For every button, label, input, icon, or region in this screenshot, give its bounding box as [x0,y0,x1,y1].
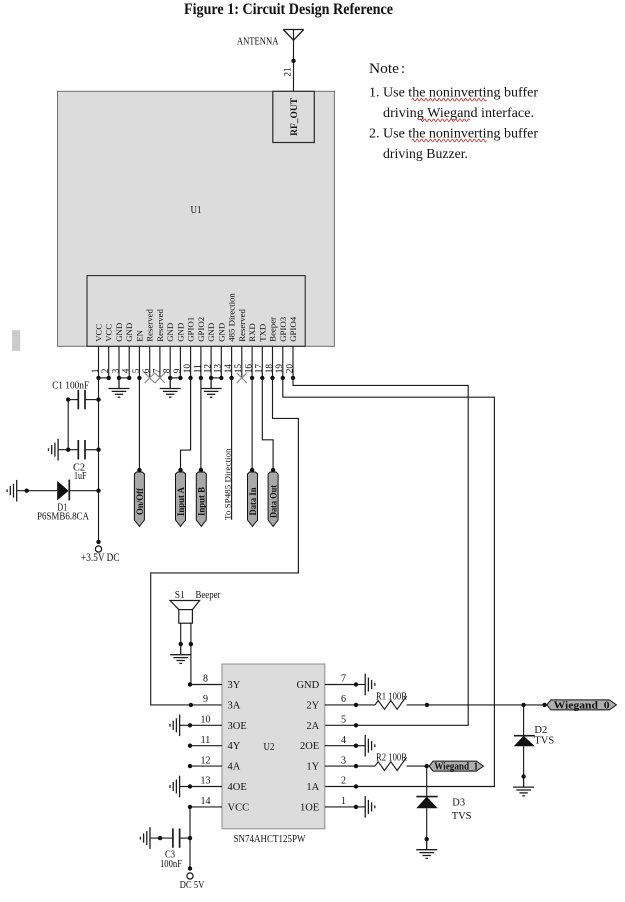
ground at U2 pin 4 (2OE) [356,745,365,747]
junction D2 ground [521,774,525,778]
svg-text:21: 21 [282,68,292,77]
wire C2 right lead [85,449,99,451]
svg-text:12: 12 [204,364,214,374]
U1 pin 20 stub wire [292,346,294,378]
no-connect X on U1 pin 7 [155,373,165,383]
svg-text:Note: Note [369,61,399,77]
svg-text:On/Off: On/Off [136,487,146,515]
U1 pin 18 stub wire [272,346,274,378]
wire pin20 to 2A [293,378,468,725]
U1 pin 13 stub wire [220,346,222,378]
U2 pin 4 wire [325,745,356,747]
junction U1 pin 13 [219,376,223,380]
power terminal +3.5V DC [95,546,101,552]
junction U2 pin 9 [189,703,193,707]
svg-text:2. Use the noninverting buffer: 2. Use the noninverting buffer [369,127,538,142]
svg-text:GND: GND [124,323,134,342]
junction U1 pin 14 [229,376,233,380]
wire antenna to RF_OUT [293,30,295,92]
junction U1 pin 17 [260,376,264,380]
no-connect X on U1 pin 6 [145,373,155,383]
svg-text:S1: S1 [175,589,185,601]
svg-text:GPIO3: GPIO3 [278,316,288,342]
flag On/Off [134,472,144,526]
svg-text:Beeper: Beeper [268,317,278,342]
svg-text:RF_OUT: RF_OUT [290,97,300,136]
svg-text:GND: GND [114,323,124,342]
flag Data In [248,472,258,526]
junction U2 pin 13 [188,784,192,788]
wire pin19 to 1A [283,378,495,787]
ground pins 3-4 [109,378,130,397]
svg-text:To SP485 Direction: To SP485 Direction [223,448,233,520]
svg-text:9: 9 [203,694,208,705]
wire pin14 SP485 stub [231,378,233,520]
svg-text:4OE: 4OE [228,782,247,793]
capacitor C2 [78,440,85,459]
U1 pin 11 stub wire [200,346,202,378]
wire speaker right lead to 3Y [190,623,192,684]
U2 pin 7 wire [325,684,356,686]
junction U2 pin 5 [354,723,358,727]
capacitor C3 [173,828,180,847]
svg-text:13: 13 [214,364,224,374]
junction U1 pin 4 [127,376,131,380]
svg-text:RXD: RXD [247,323,257,342]
svg-text:1Y: 1Y [306,762,319,773]
svg-text:D3: D3 [452,797,465,808]
svg-text:2: 2 [101,368,111,373]
junction D1 anode [25,489,29,493]
svg-text:TVS: TVS [452,811,472,822]
svg-text:Reserved: Reserved [155,308,165,341]
U2 pin 11 wire [190,745,222,747]
diode D3 TVS [426,766,428,797]
svg-text:+3.5V DC: +3.5V DC [81,552,120,564]
flag Input B [196,472,206,526]
ground at U2 pin 1 (1OE) [356,806,365,808]
junction C1 left [66,397,70,401]
IC U1 body [58,91,335,346]
svg-text:20: 20 [285,364,295,374]
U1 pin 8 stub wire [169,346,171,378]
junction rail end [96,540,100,544]
wire R2 to Wiegand_1 [407,765,430,767]
svg-text:4Y: 4Y [228,741,241,752]
svg-text:1: 1 [91,368,101,373]
svg-text:4A: 4A [228,762,241,773]
svg-text:P6SMB6.8CA: P6SMB6.8CA [37,511,89,523]
svg-text:14: 14 [224,364,234,374]
svg-text:2Y: 2Y [306,700,319,711]
svg-text:5: 5 [341,715,346,726]
ground at D1 [7,480,17,502]
svg-text:driving Wiegand interface.: driving Wiegand interface. [383,106,534,121]
U2 pin 12 wire [190,765,222,767]
wire pin16 to Data In flag [251,378,253,470]
svg-text:3OE: 3OE [228,721,247,732]
diode D1 [57,481,68,501]
ground pins 8-9 [160,378,181,397]
U1 pin 9 stub wire [179,346,181,378]
junction U1 pin 3 [117,376,121,380]
ground below D3 [416,839,437,858]
svg-text:C1 100nF: C1 100nF [52,380,89,392]
U1 pin 5 stub wire [138,346,140,378]
ground pins 12-13 [201,378,222,397]
svg-text:TVS: TVS [534,736,554,747]
junction rail C2 [96,448,100,452]
wire D1 cathode lead [69,490,98,492]
svg-text:Figure 1: Circuit Design Refer: Figure 1: Circuit Design Reference [184,1,393,18]
svg-text:1. Use the noninverting buffer: 1. Use the noninverting buffer [369,86,538,101]
svg-text:U1: U1 [191,204,202,216]
antenna [283,30,303,41]
U2 pin 6 wire to R1 [325,704,375,706]
junction antenna node [291,59,295,63]
wire C2 left lead [58,449,78,451]
junction U2 pin 12 [188,764,192,768]
svg-text:R1 100R: R1 100R [376,691,407,702]
junction U1 pin 12 [209,376,213,380]
wire D1 anode lead [17,490,58,492]
svg-text:VCC: VCC [104,324,114,342]
svg-text:Input B: Input B [198,486,208,516]
junction Input A flag [178,468,182,472]
junction U1 pin 18 [270,376,274,380]
svg-text:1uF: 1uF [74,470,87,482]
capacitor C1 [78,390,85,409]
svg-text:12: 12 [201,755,211,766]
U2 pin 1 wire [325,806,356,808]
U1 pin 10 stub wire [190,346,192,378]
wire +3.5V rail [98,378,100,542]
junction U1 pin 2 [107,376,111,380]
ground at U2 pin 10 (3OE) [180,724,190,726]
U1 pin 19 stub wire [282,346,284,378]
svg-text:GND: GND [175,323,185,342]
svg-text:8: 8 [163,368,173,373]
svg-text:GPIO2: GPIO2 [196,317,206,342]
svg-text:VCC: VCC [228,802,250,813]
junction C2 left [66,448,70,452]
svg-text:16: 16 [245,364,255,374]
svg-text::: : [401,61,405,77]
resistor R2 [375,757,407,770]
junction U2 pin 6 [354,703,358,707]
wire C3 right lead [180,837,190,839]
ground at C2 [49,439,59,461]
svg-text:10: 10 [183,364,193,374]
resistor R1 [375,696,407,709]
svg-text:7: 7 [152,368,162,373]
junction D2 tap [521,703,525,707]
svg-text:TXD: TXD [257,324,267,342]
junction Wiegand_0 entry [542,703,546,707]
wire C1 right lead [85,399,99,401]
wire U2 VCC rail [189,807,191,869]
wire pins 1-2 link [99,377,109,379]
junction U1 pin 16 [250,376,254,380]
ground at U2 pin 13 (4OE) [180,786,190,788]
RF_OUT pin box [273,91,315,142]
U2 pin 13 wire [190,786,222,788]
junction U1 pin 8 [168,376,172,380]
no-connect X on U1 pin 15 [237,373,247,383]
svg-text:U2: U2 [264,741,275,753]
svg-text:ANTENNA: ANTENNA [237,36,279,47]
svg-text:Data In: Data In [249,487,259,516]
wire D3 to ground [426,808,428,839]
svg-text:EN: EN [134,329,144,341]
svg-text:Wiegand_0: Wiegand_0 [554,700,610,711]
svg-text:11: 11 [201,735,211,746]
wire R1 to Wiegand_0 [407,704,547,706]
svg-text:SN74AHCT125PW: SN74AHCT125PW [234,833,306,845]
svg-text:19: 19 [275,364,285,374]
svg-text:DC 5V: DC 5V [180,879,205,891]
svg-text:13: 13 [201,776,211,787]
wire D2 to ground [523,746,525,776]
wire C1 to C2 [67,400,69,450]
wire speaker left lead [180,623,182,644]
flag Data Out [268,472,278,526]
U1 pin 15 stub wire [241,346,243,378]
U1 pin 12 stub wire [210,346,212,378]
junction Input B flag [199,468,203,472]
junction rail end DC5V [188,866,192,870]
U1 pin header box [87,276,305,347]
svg-text:1OE: 1OE [300,802,319,813]
junction U2 pin 3 [354,764,358,768]
svg-text:Data Out: Data Out [270,484,280,518]
svg-text:GPIO1: GPIO1 [186,317,196,342]
svg-text:7: 7 [341,674,346,685]
junction U2 pin 7 [354,682,358,686]
svg-text:17: 17 [255,364,265,374]
U1 pin 4 stub wire [128,346,130,378]
U2 pin 14 wire [190,806,222,808]
junction 2Y net [425,703,429,707]
svg-text:driving Buzzer.: driving Buzzer. [383,147,468,162]
svg-text:Reserved: Reserved [145,308,155,341]
svg-text:D2: D2 [534,725,547,736]
svg-text:R2 100R: R2 100R [376,752,407,763]
svg-text:Wiegand_1: Wiegand_1 [434,762,478,773]
speaker S1 [170,601,200,610]
svg-text:6: 6 [142,368,152,373]
junction On/Off flag [137,468,141,472]
junction speaker right [189,642,193,646]
svg-text:GND: GND [206,323,216,342]
wire C1 left lead [68,399,78,401]
U1 pin 6 stub wire [149,346,151,378]
svg-text:2A: 2A [306,721,319,732]
wire C3 left lead [150,837,173,839]
svg-text:GND: GND [296,680,319,691]
power terminal DC 5V [187,873,193,879]
svg-text:9: 9 [173,368,183,373]
svg-text:3: 3 [341,755,346,766]
junction U2 pin 14 [188,805,192,809]
diode D2 TVS [523,705,525,736]
wire pin5 to On/Off flag [138,378,140,470]
junction Data In flag [250,468,254,472]
svg-text:3: 3 [111,368,121,373]
junction U2 pin 10 [188,723,192,727]
svg-text:GND: GND [216,323,226,342]
svg-text:VCC: VCC [94,324,104,342]
U2 pin 8 wire [190,684,222,686]
svg-text:14: 14 [201,796,211,807]
junction U2 pin 8 [188,682,192,686]
svg-text:1: 1 [341,796,346,807]
svg-text:3Y: 3Y [228,680,241,691]
svg-text:100nF: 100nF [160,858,182,870]
page margin artifact [12,330,20,351]
ground at C3 [140,827,150,849]
junction U1 pin 9 [178,376,182,380]
svg-text:GND: GND [165,323,175,342]
svg-text:4: 4 [122,368,132,373]
svg-text:2: 2 [341,776,346,787]
wire pin17 to Data Out flag [262,378,273,470]
junction rail D1 [96,489,100,493]
U1 pin 16 stub wire [251,346,253,378]
junction U2 pin 11 [188,744,192,748]
junction C3 tap [188,836,192,840]
ground at speaker [170,644,191,663]
wire pin10 to Input A flag [181,378,191,470]
svg-text:GPIO4: GPIO4 [288,316,298,342]
wire pins 12-13 link [211,377,221,379]
spellcheck squiggle Wiegand (line 2) [419,119,470,122]
U2 pin 10 wire [190,724,222,726]
wire pin11 to Input B flag [200,378,202,470]
wire pins 3-4 link [119,377,129,379]
flag Input A [176,472,186,526]
port Wiegand_1 [429,761,483,771]
junction U1 pin 20 [291,376,295,380]
svg-text:Reserved: Reserved [237,308,247,341]
junction U1 pin 11 [199,376,203,380]
U1 pin 3 stub wire [118,346,120,378]
svg-text:3A: 3A [228,700,241,711]
junction U1 pin 10 [188,376,192,380]
junction U2 pin 4 [354,744,358,748]
junction U1 pin 5 [137,376,141,380]
svg-text:15: 15 [234,364,244,374]
svg-text:4: 4 [341,735,346,746]
junction C3 left [158,836,162,840]
svg-text:8: 8 [203,674,208,685]
svg-text:11: 11 [193,364,203,373]
svg-text:1A: 1A [306,782,319,793]
IC U2 body [222,664,325,829]
svg-text:10: 10 [201,715,211,726]
junction D3 tap [425,764,429,768]
junction D3 ground [425,837,429,841]
svg-text:2OE: 2OE [300,741,319,752]
junction U1 pin 1 [96,376,100,380]
U1 pin 1 stub wire [98,346,100,378]
U1 pin 17 stub wire [261,346,263,378]
svg-text:Input A: Input A [177,487,187,516]
U1 pin 2 stub wire [108,346,110,378]
svg-text:Beeper: Beeper [196,589,221,601]
spellcheck squiggle noninverting (line 3) [412,139,487,142]
ground below D2 [513,777,534,796]
svg-text:18: 18 [265,364,275,374]
U1 pin 7 stub wire [159,346,161,378]
svg-text:5: 5 [132,368,142,373]
U1 pin 14 stub wire [231,346,233,378]
svg-text:6: 6 [341,694,346,705]
junction U2 pin 1 [354,805,358,809]
junction rail C1 [96,397,100,401]
port Wiegand_0 [547,700,617,710]
spellcheck squiggle noninverting (line 1) [412,99,487,102]
junction speaker left [179,642,183,646]
ground at U2 pin 7 (GND) [356,684,365,686]
wire pins 8-9 link [170,377,180,379]
junction U2 pin 2 [354,784,358,788]
junction U1 pin 19 [281,376,285,380]
U2 pin 3 wire to R2 [325,765,375,767]
svg-text:485 Direction: 485 Direction [227,293,237,342]
junction Data Out flag [271,468,275,472]
wire pin18 beeper net [151,378,299,705]
